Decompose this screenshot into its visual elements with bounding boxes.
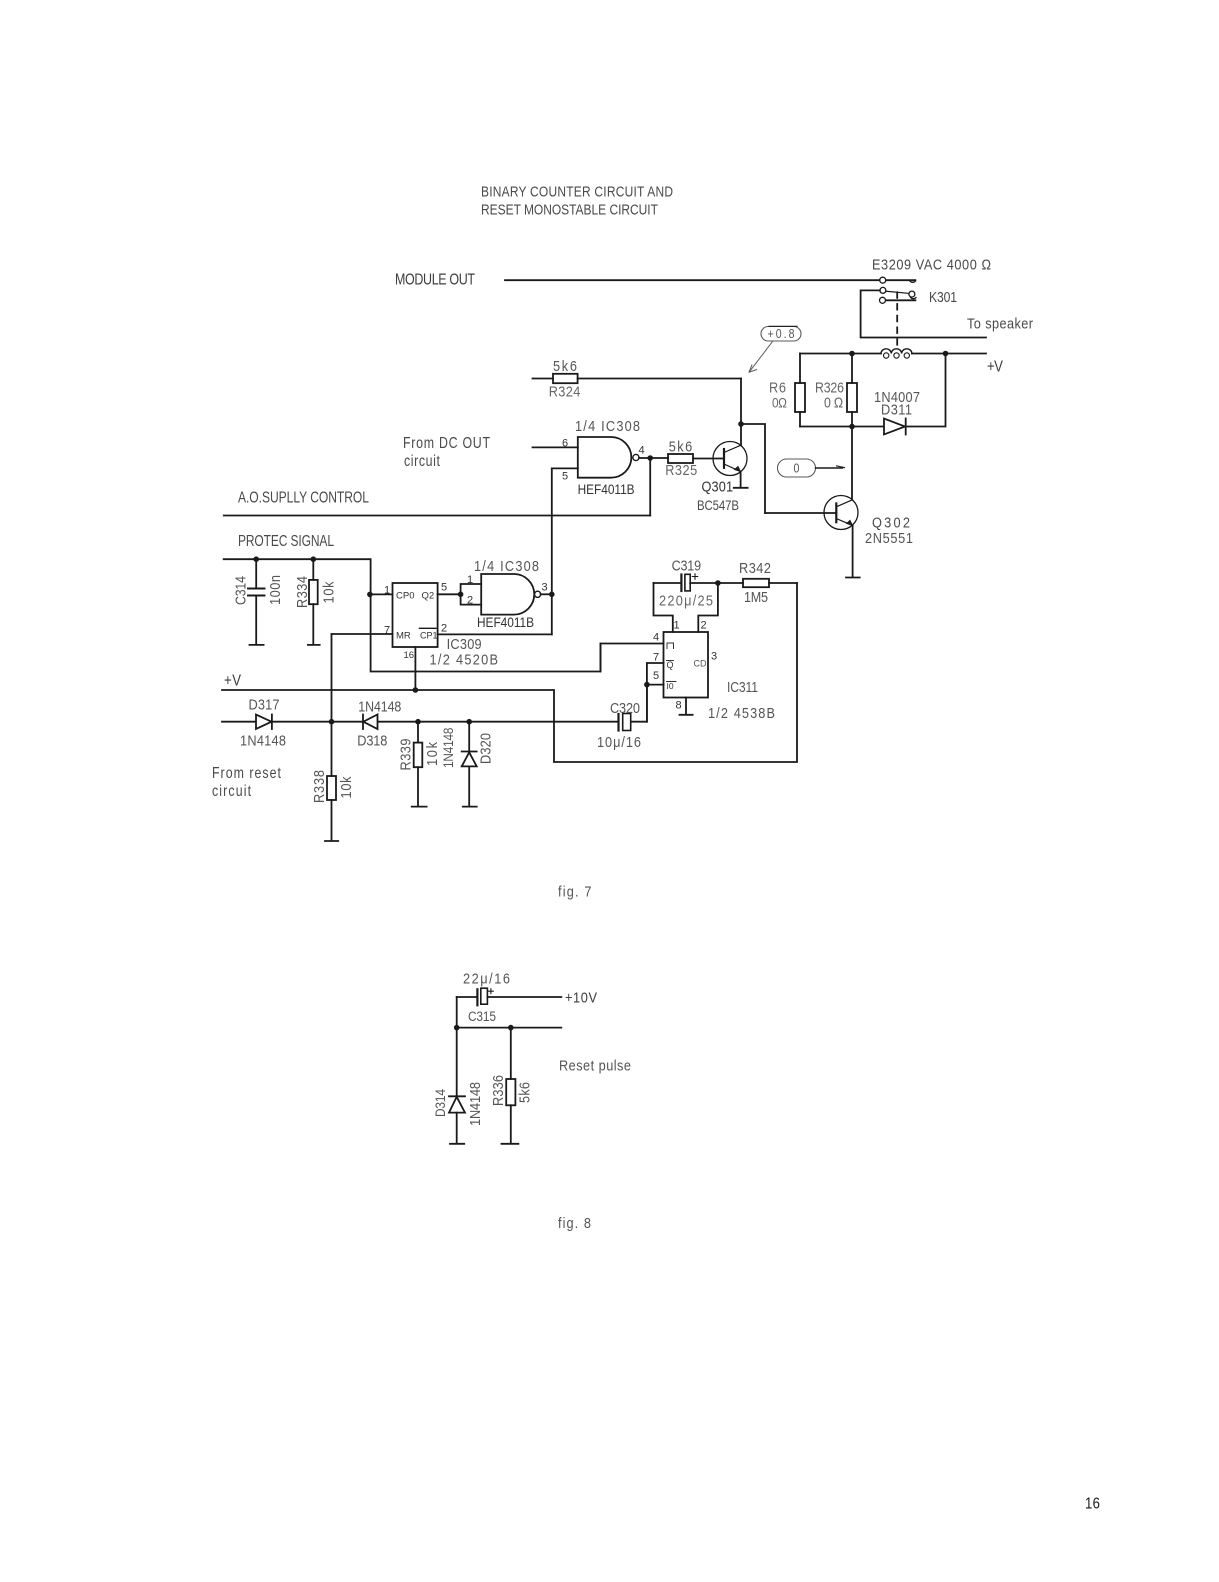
svg-text:R342: R342 bbox=[739, 559, 771, 576]
svg-text:10k: 10k bbox=[319, 581, 336, 603]
svg-text:4: 4 bbox=[639, 445, 645, 457]
svg-text:0Ω: 0Ω bbox=[772, 395, 787, 411]
svg-text:K301: K301 bbox=[929, 289, 957, 305]
svg-text:7: 7 bbox=[653, 652, 659, 664]
svg-text:1/2 4520B: 1/2 4520B bbox=[430, 650, 499, 667]
svg-text:To speaker: To speaker bbox=[967, 314, 1033, 331]
svg-text:HEF4011B: HEF4011B bbox=[578, 481, 635, 497]
svg-text:1: 1 bbox=[674, 620, 680, 632]
svg-text:IC311: IC311 bbox=[727, 679, 758, 695]
svg-text:Q: Q bbox=[667, 660, 674, 670]
svg-text:BC547B: BC547B bbox=[697, 498, 739, 513]
svg-text:10μ/16: 10μ/16 bbox=[597, 733, 641, 750]
svg-text:4: 4 bbox=[653, 632, 659, 644]
svg-text:D317: D317 bbox=[249, 695, 280, 712]
svg-text:C319: C319 bbox=[672, 558, 701, 574]
svg-text:100n: 100n bbox=[266, 575, 283, 605]
svg-text:I0: I0 bbox=[667, 681, 674, 691]
svg-text:5k6: 5k6 bbox=[669, 437, 693, 454]
svg-text:10k: 10k bbox=[423, 742, 440, 766]
svg-text:D318: D318 bbox=[357, 731, 387, 748]
svg-text:+V: +V bbox=[987, 359, 1003, 376]
svg-text:Reset pulse: Reset pulse bbox=[559, 1056, 631, 1073]
svg-text:+V: +V bbox=[224, 673, 241, 690]
svg-text:circuit: circuit bbox=[404, 452, 440, 470]
svg-text:circuit: circuit bbox=[212, 782, 251, 800]
svg-text:D314: D314 bbox=[432, 1089, 448, 1117]
svg-text:0: 0 bbox=[794, 462, 800, 476]
svg-text:R325: R325 bbox=[665, 461, 697, 478]
svg-text:PROTEC SIGNAL: PROTEC SIGNAL bbox=[238, 531, 334, 549]
svg-text:5k6: 5k6 bbox=[553, 357, 577, 374]
svg-text:A.O.SUPLLY CONTROL: A.O.SUPLLY CONTROL bbox=[238, 488, 369, 506]
svg-text:C320: C320 bbox=[610, 699, 640, 716]
svg-text:2: 2 bbox=[701, 620, 707, 632]
svg-text:22μ/16: 22μ/16 bbox=[463, 969, 510, 986]
svg-text:8: 8 bbox=[676, 700, 682, 712]
svg-text:R6: R6 bbox=[769, 378, 786, 395]
svg-text:5: 5 bbox=[562, 471, 568, 483]
svg-text:R338: R338 bbox=[310, 770, 327, 803]
svg-text:C315: C315 bbox=[468, 1008, 496, 1024]
svg-text:5: 5 bbox=[653, 670, 659, 682]
svg-text:E3209 VAC 4000 Ω: E3209 VAC 4000 Ω bbox=[872, 255, 991, 272]
svg-text:0 Ω: 0 Ω bbox=[824, 395, 843, 411]
svg-text:5k6: 5k6 bbox=[515, 1082, 532, 1103]
svg-text:CD: CD bbox=[694, 659, 707, 669]
svg-text:R324: R324 bbox=[549, 382, 581, 399]
svg-text:1N4148: 1N4148 bbox=[466, 1082, 483, 1126]
svg-text:2: 2 bbox=[441, 623, 447, 635]
svg-text:1N4148: 1N4148 bbox=[440, 728, 456, 768]
svg-text:HEF4011B: HEF4011B bbox=[477, 614, 534, 630]
svg-text:1: 1 bbox=[467, 574, 473, 586]
svg-text:From DC OUT: From DC OUT bbox=[403, 434, 490, 452]
svg-text:R336: R336 bbox=[489, 1075, 506, 1106]
svg-text:Q2: Q2 bbox=[422, 591, 435, 602]
svg-text:CP0: CP0 bbox=[396, 591, 414, 602]
svg-text:CP1: CP1 bbox=[420, 631, 438, 641]
svg-text:1M5: 1M5 bbox=[744, 589, 768, 605]
svg-text:fig. 7: fig. 7 bbox=[558, 882, 592, 899]
svg-text:R334: R334 bbox=[293, 576, 310, 608]
svg-text:3: 3 bbox=[711, 651, 717, 663]
svg-text:5: 5 bbox=[441, 582, 447, 594]
svg-text:1/2 4538B: 1/2 4538B bbox=[708, 704, 775, 721]
svg-text:1/4 IC308: 1/4 IC308 bbox=[474, 557, 539, 574]
svg-text:3: 3 bbox=[542, 582, 548, 594]
svg-text:fig. 8: fig. 8 bbox=[558, 1214, 591, 1231]
svg-text:C314: C314 bbox=[233, 576, 249, 605]
svg-text:D311: D311 bbox=[881, 400, 912, 417]
svg-text:220μ/25: 220μ/25 bbox=[659, 591, 713, 608]
svg-text:MR: MR bbox=[396, 631, 411, 642]
svg-text:16: 16 bbox=[404, 650, 415, 661]
svg-text:2N5551: 2N5551 bbox=[865, 529, 913, 546]
svg-text:RESET MONOSTABLE CIRCUIT: RESET MONOSTABLE CIRCUIT bbox=[481, 201, 658, 218]
svg-text:16: 16 bbox=[1085, 1496, 1100, 1513]
svg-text:1/4 IC308: 1/4 IC308 bbox=[575, 417, 640, 434]
svg-text:+0.8: +0.8 bbox=[767, 327, 794, 341]
svg-text:1N4148: 1N4148 bbox=[358, 699, 401, 715]
svg-text:From reset: From reset bbox=[212, 764, 281, 782]
svg-text:+10V: +10V bbox=[565, 988, 598, 1005]
svg-text:2: 2 bbox=[467, 595, 473, 607]
svg-text:10k: 10k bbox=[337, 776, 354, 798]
svg-text:R326: R326 bbox=[815, 380, 844, 396]
svg-text:MODULE OUT: MODULE OUT bbox=[395, 271, 475, 289]
svg-text:6: 6 bbox=[562, 438, 568, 450]
svg-text:BINARY COUNTER CIRCUIT AND: BINARY COUNTER CIRCUIT AND bbox=[481, 183, 673, 200]
svg-text:1N4148: 1N4148 bbox=[240, 731, 286, 748]
svg-text:D320: D320 bbox=[476, 733, 493, 764]
svg-text:7: 7 bbox=[384, 625, 390, 637]
svg-text:Q301: Q301 bbox=[702, 477, 734, 494]
svg-text:1: 1 bbox=[384, 585, 390, 597]
svg-text:R339: R339 bbox=[396, 738, 413, 770]
